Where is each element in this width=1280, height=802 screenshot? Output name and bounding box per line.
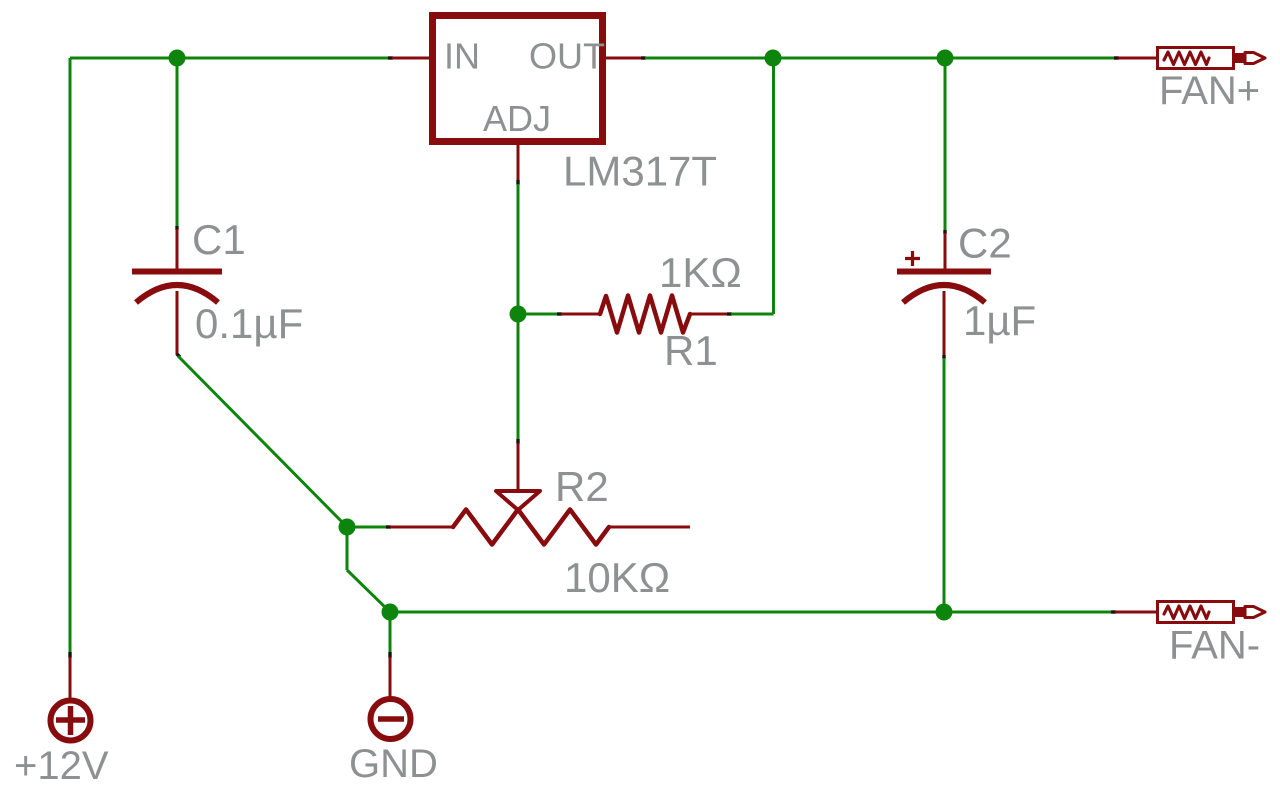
resistor R1 right lead [690, 313, 728, 316]
pin tip IN [388, 56, 393, 59]
node B dot (OUT / R1) [765, 50, 782, 67]
ground GND stub [389, 657, 392, 698]
wire C2 top [944, 58, 947, 231]
wire top rail left (+12V to IN) [70, 57, 389, 60]
wire ADJ vertical [517, 184, 520, 314]
potentiometer R2 wiper stem [517, 443, 520, 490]
capacitor C2 top plate [897, 269, 991, 275]
connector J1 FAN+ pin block [1235, 53, 1245, 63]
capacitor C2 bottom lead [943, 291, 946, 356]
svg-text:ADJ: ADJ [483, 98, 551, 139]
capacitor C1 top plate [132, 269, 222, 275]
svg-text:FAN-: FAN- [1169, 624, 1260, 668]
node D dot (ADJ / R1 / R2 wiper) [510, 306, 527, 323]
connector J2 FAN- plug tip [1245, 607, 1265, 618]
wire GND rail [390, 611, 1112, 614]
svg-text:1KΩ: 1KΩ [659, 249, 742, 296]
connector J2 FAN- pin block [1235, 607, 1245, 617]
pin tip R2 wiper [516, 439, 519, 444]
pin tip OUT [641, 56, 646, 59]
connector J1 FAN+ plug tip [1245, 53, 1265, 64]
supply +12V circle [51, 701, 91, 741]
capacitor C1 top lead [176, 229, 179, 269]
potentiometer R2 zigzag [453, 510, 609, 545]
pin tip C1 bottom [177, 354, 180, 357]
svg-text:OUT: OUT [529, 36, 605, 77]
wire ADJ to R2 wiper [517, 314, 520, 440]
pin FAN- stub [1115, 611, 1157, 614]
node G dot (C2 bottom / FAN-) [936, 604, 953, 621]
wire C1 top [176, 58, 179, 227]
resistor R1 zigzag [600, 296, 690, 333]
pin tip GND [388, 652, 391, 658]
connector J2 FAN- body [1158, 602, 1234, 623]
pin FAN+ stub [1118, 57, 1157, 60]
wire left rail vertical [69, 58, 72, 653]
pin IN stub [392, 57, 430, 60]
supply +12V stub [69, 657, 72, 698]
pin tip ADJ [516, 180, 519, 185]
wire F to GND [389, 612, 392, 653]
pin tip C2 top [943, 230, 946, 234]
svg-text:+12V: +12V [14, 744, 109, 788]
pin tip FAN+ [1114, 56, 1119, 59]
wire R1 right to OUT [731, 58, 774, 314]
svg-text:10KΩ: 10KΩ [564, 554, 670, 601]
svg-text:C1: C1 [192, 216, 246, 263]
svg-text:0.1µF: 0.1µF [195, 300, 303, 347]
regulator U1 box [433, 16, 603, 142]
svg-text:GND: GND [349, 742, 438, 786]
node C dot (C2 / FAN+) [937, 50, 954, 67]
pin tip R1 left [557, 312, 562, 315]
wire C2 bottom [943, 358, 946, 612]
connector J1 FAN+ body [1158, 48, 1234, 69]
resistor R1 left lead [561, 313, 600, 316]
potentiometer R2 left lead [390, 526, 453, 529]
pin tip C2 bottom [942, 355, 945, 359]
svg-text:IN: IN [444, 36, 480, 77]
wire E down [346, 527, 349, 570]
node E dot (R2 left junction) [339, 519, 356, 536]
pin ADJ stub [517, 145, 520, 181]
pin OUT stub [606, 57, 642, 60]
svg-text:LM317T: LM317T [563, 148, 717, 195]
svg-text:FAN+: FAN+ [1159, 69, 1260, 113]
capacitor C1 bottom plate arc [136, 285, 218, 303]
capacitor C2 top lead [944, 233, 947, 269]
connector J2 FAN- coil [1164, 606, 1209, 619]
capacitor C2 plus sign [905, 251, 920, 266]
pin tip C1 top [175, 226, 178, 230]
wire R1 left [518, 313, 558, 316]
wire E diagonal to GND rail [347, 570, 390, 612]
svg-text:C2: C2 [958, 220, 1012, 267]
node A dot (12V rail / C1) [169, 50, 186, 67]
wire top rail right (OUT to FAN+) [645, 57, 1115, 60]
potentiometer R2 right lead [609, 526, 690, 529]
svg-text:R1: R1 [664, 327, 718, 374]
svg-text:1µF: 1µF [963, 297, 1036, 344]
pin tip R2 left [386, 525, 391, 528]
svg-text:R2: R2 [555, 463, 609, 510]
pin tip FAN- [1111, 610, 1116, 613]
ground GND circle [371, 699, 411, 739]
potentiometer R2 wiper arrow [496, 491, 540, 510]
connector J1 FAN+ coil [1164, 52, 1209, 65]
capacitor C2 bottom plate arc [903, 285, 985, 303]
ground GND minus [378, 716, 404, 722]
pin tip R1 right [727, 312, 732, 315]
node F dot (GND rail left) [382, 604, 399, 621]
pin tip +12V [68, 652, 71, 658]
supply +12V plus [56, 706, 85, 735]
wire R2 left [347, 526, 387, 529]
capacitor C1 bottom lead [176, 291, 179, 355]
wire C1 to R2 diagonal [178, 356, 347, 527]
